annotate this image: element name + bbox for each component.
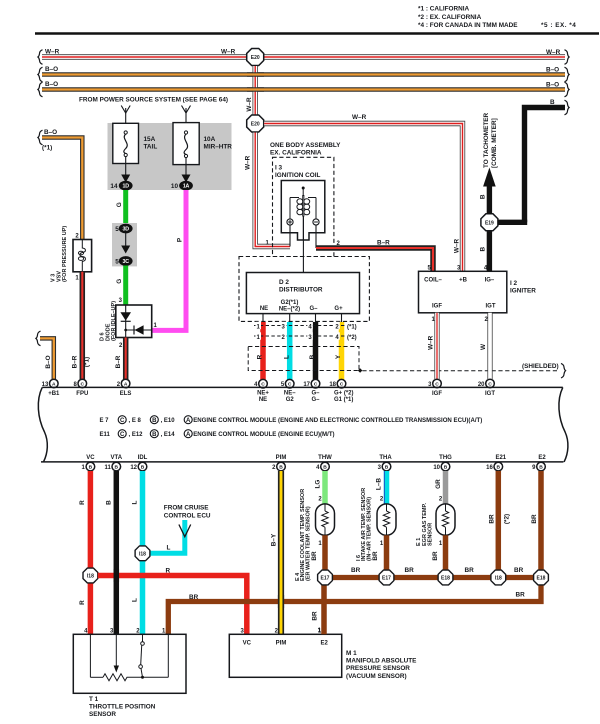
svg-text:W–R: W–R — [352, 114, 367, 121]
wire B-O bus 2 crossing overlay — [247, 87, 264, 92]
band pin label IDL — [138, 455, 148, 461]
label W-R vertical igniter +B — [454, 239, 461, 254]
label pin +B — [459, 277, 468, 283]
svg-text:L: L — [132, 500, 139, 504]
label pin 4 throttle — [84, 628, 88, 634]
connector 1D pin 14 — [110, 181, 132, 190]
E18 node E2 — [534, 570, 549, 585]
band pin label VTA — [111, 455, 123, 461]
band pin label NE- G2 — [284, 391, 296, 404]
wire G 3C to diode — [123, 266, 128, 306]
svg-text:R: R — [166, 568, 171, 575]
svg-text:B–O: B–O — [44, 129, 57, 136]
svg-text:THW: THW — [318, 455, 332, 461]
wire L IDL to throttle pin2 — [140, 471, 146, 634]
wire B-O power bus 2 — [42, 87, 565, 92]
wire B VTA crossing overlay — [114, 569, 120, 582]
svg-text:C: C — [120, 432, 125, 438]
wire W-R E20 to ignition coil pin1 — [255, 133, 290, 247]
wire B-R diode to ELS — [123, 338, 129, 380]
svg-text:B–R: B–R — [72, 355, 79, 368]
pin 2 VSV — [75, 234, 79, 240]
label pin COIL- — [424, 277, 442, 283]
svg-text:(FOR IDLE–UP): (FOR IDLE–UP) — [111, 301, 117, 341]
svg-text:15A: 15A — [144, 136, 156, 143]
label pin 1 throttle — [162, 628, 166, 634]
band pin label THG — [439, 455, 452, 461]
E19 node — [481, 214, 498, 231]
svg-text:G–: G– — [309, 306, 318, 312]
svg-text:B–Y: B–Y — [271, 533, 278, 546]
intake air temp sensor I6 — [377, 504, 396, 535]
label B-R FPU — [72, 355, 79, 368]
label pin G+ — [334, 306, 343, 312]
svg-text:(*1): (*1) — [83, 357, 90, 367]
ECU band top edge — [42, 386, 563, 388]
svg-text:G–: G– — [311, 391, 320, 397]
svg-text:ONE BODY ASSEMBLY: ONE BODY ASSEMBLY — [270, 142, 341, 149]
arrow into fuse TAIL — [121, 106, 130, 132]
svg-text:G: G — [116, 202, 123, 207]
svg-text:W–R: W–R — [245, 155, 252, 170]
svg-text:ELS: ELS — [120, 391, 132, 397]
svg-text:3D: 3D — [123, 227, 130, 233]
svg-text:C: C — [435, 381, 439, 387]
svg-text:12: 12 — [130, 465, 137, 471]
svg-text:Y: Y — [335, 354, 342, 359]
ECU connector 17 C G- — [303, 379, 319, 388]
svg-text:A: A — [124, 381, 128, 387]
ECU connector 18 C G+ — [329, 379, 345, 388]
svg-text:DISTRIBUTOR: DISTRIBUTOR — [279, 287, 323, 294]
label pin 1 igf — [431, 317, 435, 323]
label E4 ENGINE COOLANT TEMP. SENSOR — [295, 489, 312, 581]
svg-text:10: 10 — [171, 183, 179, 190]
wire R distributor NE — [260, 322, 266, 380]
label I2 IGNITER — [510, 280, 536, 295]
label (*1) FPU — [83, 357, 90, 367]
label P — [177, 237, 184, 242]
distributor pin stubs — [263, 314, 342, 322]
svg-text:FROM POWER SOURCE SYSTEM (SEE: FROM POWER SOURCE SYSTEM (SEE PAGE 64) — [79, 97, 228, 104]
svg-text:B–O: B–O — [45, 355, 52, 368]
svg-text:1D: 1D — [123, 184, 130, 190]
svg-text:(ER WATER TEMP. SENSOR): (ER WATER TEMP. SENSOR) — [306, 506, 312, 581]
wire G fuse to 3D — [123, 190, 128, 225]
wire B distributor G- — [313, 322, 319, 380]
svg-text:B: B — [279, 465, 283, 471]
wire Y distributor G+ — [339, 322, 345, 380]
label B-O +B1 — [45, 355, 52, 368]
band pin label E21 — [495, 455, 506, 461]
label Y rotated — [335, 354, 342, 359]
ECU connector 20 C IGT — [478, 379, 494, 388]
coolant temp sensor E4 — [316, 504, 335, 535]
svg-text:(*1): (*1) — [347, 324, 357, 330]
label GR — [435, 479, 442, 489]
label 1 M1 E2 — [318, 628, 322, 634]
svg-text:G+: G+ — [334, 306, 343, 312]
label W-R horizontal igniter feed — [352, 114, 367, 121]
band text line 2 ECU M/T — [100, 430, 335, 438]
label E2 M1 — [321, 641, 329, 647]
svg-text:ENGINE CONTROL MODULE (ENGINE: ENGINE CONTROL MODULE (ENGINE AND ELECTR… — [193, 417, 482, 424]
wire B-R coil to igniter COIL- — [316, 248, 433, 271]
connector 1A pin 10 — [171, 181, 193, 190]
wire BR E2 to E18 — [538, 471, 544, 571]
svg-text:(IN–AIR TEMP. SENSOR): (IN–AIR TEMP. SENSOR) — [366, 497, 372, 561]
svg-text:14: 14 — [110, 183, 118, 190]
brace right B-O 2 — [565, 82, 570, 97]
svg-text:W–R: W–R — [546, 49, 561, 56]
pin 3 diode — [119, 298, 123, 304]
label BR egr — [432, 551, 439, 561]
wire B igniter IG- to E19 — [487, 230, 492, 271]
ECU connector 16 B E21 — [486, 462, 502, 471]
wire BR E17 to M1 E2 — [321, 578, 327, 635]
svg-text:E17: E17 — [321, 576, 330, 582]
label 2 coolant — [318, 496, 322, 502]
brace B-O stub — [38, 130, 43, 145]
label BR intake — [372, 551, 379, 561]
svg-text:I18: I18 — [87, 574, 94, 580]
label 2 egr — [439, 496, 443, 502]
brace left W-R — [38, 50, 43, 65]
svg-text:B: B — [539, 465, 543, 471]
svg-text:VC: VC — [86, 455, 95, 461]
dashed shield line to brace — [362, 370, 559, 372]
wire B-R VSV to FPU — [80, 272, 86, 380]
label W-R mid — [221, 49, 236, 56]
label BR E21 — [488, 514, 495, 524]
label (*1) stub — [42, 145, 52, 152]
svg-text:C: C — [120, 418, 125, 424]
svg-text:W–R: W–R — [221, 49, 236, 56]
wire W-R igniter IGF to ECU — [434, 313, 439, 379]
ECU connector 3 C IGF — [428, 379, 441, 388]
label 15A TAIL — [144, 136, 158, 151]
svg-text:*2 : EX. CALIFORNIA: *2 : EX. CALIFORNIA — [418, 14, 482, 21]
svg-text:, E12: , E12 — [129, 432, 144, 438]
svg-text:(*2): (*2) — [504, 514, 511, 524]
svg-text:R: R — [79, 600, 86, 605]
svg-text:(VACUUM SENSOR): (VACUUM SENSOR) — [346, 673, 407, 680]
wire BR E21 to I18 — [496, 471, 502, 571]
dashed pin row 2 — [254, 332, 357, 341]
label L upper — [132, 500, 139, 504]
brace shielded — [561, 363, 566, 378]
brace right B-O 1 — [565, 67, 570, 82]
fuse 10A MIR-HTR — [173, 123, 199, 165]
wire L-B THA to intake sensor — [384, 471, 386, 505]
svg-text:(FOR PRESSURE UP): (FOR PRESSURE UP) — [62, 226, 68, 282]
wire BR intake to E17 — [384, 535, 390, 571]
svg-text:TO TACHOMETER: TO TACHOMETER — [483, 112, 490, 168]
fuse block gray panel — [108, 123, 232, 190]
svg-text:(*1): (*1) — [42, 145, 52, 152]
wire B-Y crossing overlay — [278, 595, 284, 608]
svg-text:*4 : FOR CANADA IN TMM MADE: *4 : FOR CANADA IN TMM MADE — [418, 22, 518, 29]
note *4 For Canada — [418, 22, 518, 29]
svg-text:P: P — [177, 237, 184, 242]
lead from fuse MIR-HTR to connector 1A — [182, 158, 191, 183]
svg-text:NE–(*2): NE–(*2) — [279, 307, 300, 313]
manifold absolute pressure sensor M1 box — [229, 634, 341, 677]
connector 3D pin 5 — [115, 224, 132, 233]
label BR left — [189, 594, 199, 601]
svg-text:E2: E2 — [538, 455, 546, 461]
svg-text:NE–: NE– — [284, 391, 296, 397]
ECU connector row: 13 A +B1 — [42, 379, 58, 388]
ECU connector 4 C NE+ — [254, 379, 267, 388]
label pin 3 — [457, 265, 461, 271]
svg-text:B: B — [309, 354, 316, 359]
label E1 EGR GAS TEMP. SENSOR — [416, 503, 434, 546]
label pin G2(*1) NE-(*2) — [279, 300, 300, 313]
wire L from cruise control — [150, 520, 185, 553]
svg-text:L: L — [167, 545, 171, 552]
svg-text:L–B: L–B — [376, 478, 383, 490]
svg-text:10A: 10A — [204, 136, 216, 143]
svg-text:B–R: B–R — [115, 355, 122, 368]
svg-text:G–: G– — [311, 397, 320, 403]
label B-O stub — [44, 129, 57, 136]
svg-text:IGT: IGT — [486, 303, 496, 309]
band pin label PIM — [276, 455, 287, 461]
svg-text:LG: LG — [315, 480, 322, 489]
pin 1 diode — [154, 323, 158, 329]
svg-text:I18: I18 — [139, 551, 146, 557]
svg-text:VC: VC — [243, 641, 252, 647]
svg-text:B: B — [479, 247, 486, 252]
top border line — [35, 32, 599, 35]
band pin label VC — [86, 455, 95, 461]
label V3 VSV (FOR PRESSURE UP) — [51, 226, 69, 282]
svg-text:3C: 3C — [123, 259, 130, 265]
fuse 15A TAIL — [113, 123, 139, 163]
label (*2) E21 — [504, 514, 511, 524]
label pin 2 igt — [484, 317, 488, 323]
wire L distributor NE- — [287, 322, 293, 380]
wire W-R E20 to igniter +B — [264, 124, 462, 272]
svg-text:, E 8: , E 8 — [129, 418, 142, 424]
band pin label G- G- — [311, 391, 320, 404]
I18 node on IDL — [135, 546, 150, 561]
label BR bus 1 — [351, 567, 361, 574]
throttle position sensor T1 box — [73, 634, 186, 693]
wire R branch to M1 VC — [98, 576, 247, 635]
arrow into fuse MIR-HTR — [182, 106, 191, 131]
brace +B1 stub — [36, 331, 41, 346]
svg-text:B: B — [497, 465, 501, 471]
wire B-O stub to VSV — [42, 138, 82, 240]
svg-text:MANIFOLD ABSOLUTE: MANIFOLD ABSOLUTE — [346, 658, 417, 665]
label R rotated — [256, 354, 263, 359]
wire BR ground bus — [325, 575, 541, 580]
label pin 3 throttle — [110, 628, 114, 634]
svg-text:BR: BR — [189, 594, 199, 601]
diode D6 box — [116, 305, 152, 338]
svg-text:THG: THG — [439, 455, 452, 461]
band pin label THW — [318, 455, 332, 461]
ECU band right edge — [559, 387, 568, 462]
label (SHIELDED) — [522, 363, 559, 370]
label pin 2 throttle — [136, 628, 140, 634]
label 2 intake — [380, 496, 384, 502]
band pin label ELS — [120, 391, 132, 397]
wire B arrow to tachometer — [483, 168, 496, 215]
svg-text:B: B — [323, 465, 327, 471]
svg-text:G2(*1): G2(*1) — [281, 300, 299, 306]
ECU connector 10 B THG — [433, 462, 449, 471]
label BR bus 4 — [514, 567, 524, 574]
svg-text:I 2: I 2 — [510, 280, 518, 287]
note *1 California — [418, 6, 470, 13]
ignition coil I3 — [281, 181, 325, 241]
label FROM CRUISE CONTROL ECU — [164, 504, 211, 519]
svg-text:5: 5 — [115, 226, 119, 233]
dashed box one body assembly (distributor) — [239, 257, 369, 322]
svg-text:IGNITER: IGNITER — [510, 288, 536, 295]
label 1 coolant — [318, 541, 322, 547]
band pin label THA — [379, 455, 392, 461]
svg-text:B: B — [480, 194, 487, 199]
label pin 2 coil — [337, 241, 341, 247]
label W-R vertical coil — [245, 155, 252, 170]
label D6 DIODE (FOR IDLE-UP) — [100, 301, 118, 341]
band pin label NE+ NE — [257, 391, 269, 404]
svg-text:L: L — [132, 598, 139, 602]
svg-text:A: A — [186, 432, 191, 438]
distributor D2 box — [246, 273, 359, 314]
svg-text:T 1: T 1 — [89, 696, 99, 703]
svg-text:G: G — [116, 279, 123, 284]
label BR bus 3 — [465, 567, 475, 574]
label W IGT — [480, 343, 487, 350]
svg-text:B: B — [152, 418, 157, 424]
svg-text:BR: BR — [351, 567, 361, 574]
label 10A MIR-HTR — [204, 136, 233, 151]
svg-text:5: 5 — [115, 259, 119, 266]
ECU band bottom edge — [41, 461, 564, 463]
ECU connector 3 B THA — [378, 462, 391, 471]
wire B E19 to corner — [498, 220, 528, 225]
label W-R right — [546, 49, 561, 56]
label pin NE — [260, 306, 268, 312]
connector block 3D/3C gray panel — [112, 223, 137, 266]
wire BR throttle pin1 to E18 — [168, 583, 541, 634]
svg-text:NE+: NE+ — [257, 391, 269, 397]
label pin 2 M1 — [275, 628, 279, 634]
band pin label G+ G1 — [334, 391, 354, 404]
E17 node intake — [379, 570, 394, 585]
svg-text:VTA: VTA — [111, 455, 123, 461]
label BR coolant — [311, 551, 318, 561]
label T1 THROTTLE POSITION SENSOR — [89, 696, 156, 718]
band pin label IGF — [432, 391, 442, 397]
E20 node upper — [247, 49, 264, 66]
svg-text:THA: THA — [379, 455, 392, 461]
label pin IG- — [485, 277, 495, 283]
label BR bus 2 — [405, 567, 415, 574]
label FROM POWER SOURCE SYSTEM — [79, 97, 228, 104]
svg-text:BR: BR — [311, 551, 318, 561]
svg-text:IGT: IGT — [485, 391, 495, 397]
svg-text:BR: BR — [312, 611, 319, 621]
svg-text:B: B — [141, 465, 145, 471]
label pin 5 — [427, 265, 431, 271]
svg-text:IGF: IGF — [432, 303, 442, 309]
ECU connector 5 C NE- — [281, 379, 294, 388]
svg-text:(*2): (*2) — [347, 335, 357, 341]
wire LG THW to coolant sensor — [322, 471, 328, 505]
svg-text:IGNITION COIL: IGNITION COIL — [275, 172, 321, 179]
svg-text:C: C — [81, 381, 85, 387]
band pin label E2 — [538, 455, 546, 461]
brace right B — [565, 100, 570, 115]
svg-text:E20: E20 — [251, 55, 260, 61]
cruise arrow — [179, 525, 191, 537]
svg-text:E18: E18 — [537, 576, 546, 582]
svg-text:IGF: IGF — [432, 391, 442, 397]
shield junction dot — [358, 368, 363, 373]
svg-text:B–O: B–O — [546, 66, 559, 73]
svg-text:B: B — [152, 432, 157, 438]
svg-text:*5 : EX. *4: *5 : EX. *4 — [541, 22, 576, 29]
label B-O left 1 — [45, 66, 58, 73]
label W-R IGF — [428, 335, 435, 350]
I18 node E21 — [491, 570, 506, 585]
svg-text:FROM CRUISE: FROM CRUISE — [164, 504, 209, 511]
label pin IGF — [432, 303, 442, 309]
svg-text:E18: E18 — [441, 576, 450, 582]
label W-R vertical upper — [246, 97, 253, 112]
band pin label +B1 — [48, 391, 60, 397]
wire W igniter IGT to ECU — [487, 313, 492, 379]
svg-text:R: R — [79, 500, 86, 505]
svg-text:I18: I18 — [495, 576, 502, 582]
label LG — [315, 480, 322, 489]
svg-text:B–O: B–O — [45, 66, 58, 73]
label B-R ELS — [115, 355, 122, 368]
brace right W-R — [565, 50, 570, 65]
wire B-Y PIM to M1 — [278, 471, 284, 634]
svg-text:B: B — [550, 99, 555, 106]
ECU connector 8 C FPU — [73, 379, 86, 388]
svg-text:E21: E21 — [495, 455, 506, 461]
label B-O right 1 — [546, 66, 559, 73]
svg-text:CONTROL ECU: CONTROL ECU — [164, 512, 211, 519]
svg-text:BR: BR — [405, 567, 415, 574]
svg-text:B: B — [106, 500, 113, 505]
label R upper — [79, 500, 86, 505]
brace left B-O 2 — [38, 82, 43, 97]
ECU connector 12 B IDL — [130, 462, 146, 471]
label pin 4 — [484, 265, 488, 271]
svg-text:E 7: E 7 — [100, 418, 110, 424]
svg-text:BR: BR — [465, 567, 475, 574]
svg-text:10: 10 — [433, 465, 440, 471]
svg-text:GR: GR — [435, 479, 442, 489]
svg-text:BR: BR — [488, 514, 495, 524]
label B-R coil igniter — [377, 239, 390, 246]
svg-text:[COMB. METER]: [COMB. METER] — [491, 118, 498, 168]
wire W-R power bus — [42, 54, 565, 59]
svg-text:PIM: PIM — [276, 455, 287, 461]
svg-text:B: B — [89, 465, 93, 471]
pin 2 diode — [119, 343, 123, 349]
svg-text:E17: E17 — [382, 576, 391, 582]
